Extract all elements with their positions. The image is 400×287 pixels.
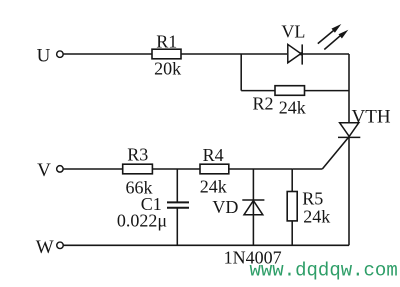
svg-text:R2: R2 <box>252 93 273 113</box>
svg-text:VTH: VTH <box>352 106 391 127</box>
terminal W <box>57 242 64 249</box>
wire R1 to LED anode <box>181 53 287 55</box>
svg-text:V: V <box>37 160 51 181</box>
wire thyristor cathode down to W row <box>348 137 350 245</box>
svg-text:0.022μ: 0.022μ <box>117 211 167 231</box>
LED light arrow 2 <box>324 30 348 50</box>
resistor R3 <box>123 145 153 198</box>
resistor R1 <box>152 31 181 78</box>
wire U terminal to R1 <box>63 53 152 55</box>
terminal V <box>57 166 64 173</box>
resistor R2 <box>252 86 305 118</box>
wire LED cathode to right rail <box>301 53 349 55</box>
LED VL <box>281 21 348 64</box>
thyristor VTH <box>338 106 391 137</box>
capacitor C1 <box>117 169 189 245</box>
wire gate horizontal to V row <box>292 168 322 170</box>
svg-text:www.dqdqw.com: www.dqdqw.com <box>250 260 398 282</box>
wire thyristor gate diagonal <box>322 137 349 169</box>
svg-text:R3: R3 <box>127 145 148 165</box>
wire junction drop to R2 row <box>240 54 242 91</box>
wire R2 branch left segment <box>241 90 275 92</box>
diode VD 1N4007 <box>212 169 281 267</box>
svg-text:VD: VD <box>212 197 238 217</box>
svg-text:R1: R1 <box>156 31 177 51</box>
terminal U <box>57 51 64 58</box>
svg-text:VL: VL <box>281 21 305 41</box>
wire V terminal to R3 <box>63 168 122 170</box>
svg-text:20k: 20k <box>154 58 181 78</box>
resistor R4 <box>200 145 229 197</box>
wire W row <box>63 244 349 246</box>
svg-text:24k: 24k <box>200 177 227 197</box>
svg-text:R4: R4 <box>203 145 224 165</box>
wire R4 to gate junction <box>229 168 292 170</box>
LED light arrow 1 <box>318 24 342 44</box>
wire right rail anode (U row to thyristor) <box>348 54 350 123</box>
resistor R5 <box>287 169 330 245</box>
svg-text:U: U <box>37 46 51 67</box>
svg-text:W: W <box>36 237 54 258</box>
wire R2 to right rail <box>305 90 350 92</box>
svg-text:R5: R5 <box>302 188 323 208</box>
svg-text:24k: 24k <box>279 97 306 117</box>
wire R3 to R4 <box>152 168 200 170</box>
svg-text:24k: 24k <box>303 206 330 226</box>
